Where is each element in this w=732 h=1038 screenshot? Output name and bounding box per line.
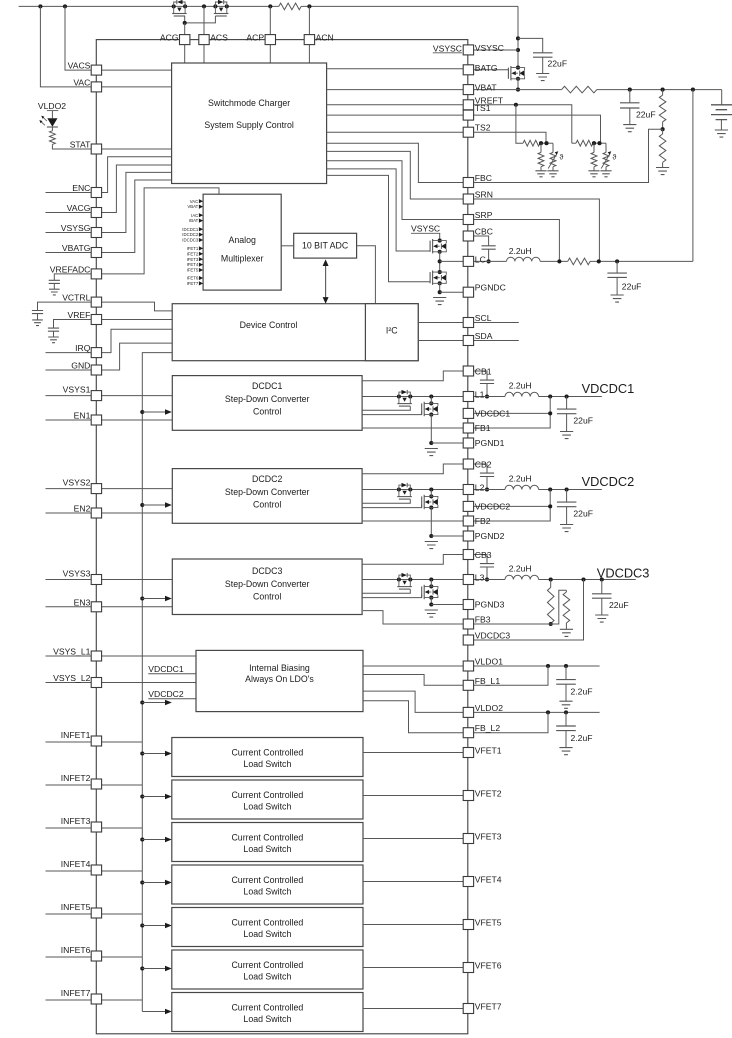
node cap tap xyxy=(600,577,604,581)
wire bus arrow xyxy=(142,839,165,841)
pin VFET6 xyxy=(463,963,473,973)
wire CB1 internal xyxy=(362,371,463,381)
wire PGND3 internal xyxy=(431,604,463,606)
node bus branch y968.5 xyxy=(140,966,144,970)
node PGND3 xyxy=(429,602,433,606)
wire INFET3 internal xyxy=(102,827,143,829)
svg-text:Step-Down Converter: Step-Down Converter xyxy=(225,487,310,497)
wire LC internal xyxy=(440,260,464,262)
resistor TS1 pulldown xyxy=(593,143,595,152)
svg-text:22uF: 22uF xyxy=(573,415,593,425)
wire VFET2 internal xyxy=(363,795,463,797)
svg-text:IFET6: IFET6 xyxy=(187,276,199,281)
node VBAT divider tap xyxy=(661,88,665,92)
svg-text:INFET5: INFET5 xyxy=(61,902,91,912)
wire EN1 internal xyxy=(102,419,173,421)
svg-text:VDCDC1: VDCDC1 xyxy=(148,664,184,674)
pin VREFADC xyxy=(91,269,101,279)
node bus branch y753.5 xyxy=(140,751,144,755)
wire bus arrow xyxy=(142,504,165,506)
wire charger to VREFT xyxy=(327,104,464,106)
ground PGNDC xyxy=(433,298,446,305)
pin FBC xyxy=(463,178,473,188)
transistor Q5 charger low FET xyxy=(438,270,442,274)
wire ACS pin to charger block xyxy=(203,45,205,63)
block load switch 1 xyxy=(172,738,363,777)
wire charger to TS1 xyxy=(327,114,464,116)
wire VAC internal xyxy=(102,86,172,88)
pin TS2 xyxy=(463,127,473,137)
ground PGND2 xyxy=(425,542,438,549)
svg-text:22uF: 22uF xyxy=(573,508,593,518)
wire charger to Q5 gate xyxy=(327,175,431,281)
pin CBC xyxy=(463,231,473,241)
wire PGND1 internal xyxy=(431,442,463,444)
pin VDCDC3 xyxy=(463,635,473,645)
wire L2 output xyxy=(539,489,602,491)
wire VSYS1 internal xyxy=(102,395,173,397)
pin VSYS2 xyxy=(91,484,101,494)
svg-text:DCDC3: DCDC3 xyxy=(252,566,282,576)
pin EN3 xyxy=(91,602,101,612)
pin VCTRL xyxy=(91,297,101,307)
inductor L-charger 2.2uH xyxy=(507,257,541,261)
wire bus arrow bottom xyxy=(142,1011,165,1013)
node FB_L2 tap xyxy=(546,710,550,714)
svg-text:Current Controlled: Current Controlled xyxy=(231,1003,303,1013)
pin VDCDC2 xyxy=(463,501,473,511)
wire PMOS gate drive xyxy=(362,589,410,593)
transistor PMOS DCDC1 xyxy=(397,394,401,398)
node battery junction xyxy=(691,88,695,92)
diode D1 LED xyxy=(51,111,53,119)
wire NMOS gate drive xyxy=(362,505,422,508)
wire ACP pin to charger block xyxy=(269,45,271,63)
svg-text:VDCDC2: VDCDC2 xyxy=(148,689,184,699)
svg-text:L1: L1 xyxy=(475,390,485,400)
pin VSYS1 xyxy=(91,391,101,401)
svg-text:SRN: SRN xyxy=(475,190,493,200)
node VREFT branch xyxy=(514,103,518,107)
pin ACS xyxy=(199,35,209,45)
wire ACN drop xyxy=(308,6,310,34)
node FB_L1 tap xyxy=(546,664,550,668)
block load switch 7 xyxy=(172,993,363,1032)
resistor FB divider lower xyxy=(565,590,567,592)
svg-text:VLDO2: VLDO2 xyxy=(475,703,503,713)
wire GND stub xyxy=(46,369,92,371)
svg-text:VSYS2: VSYS2 xyxy=(63,477,91,487)
svg-text:LC: LC xyxy=(475,254,486,264)
wire NMOS to PGND2 xyxy=(430,508,432,536)
node L2 switch node xyxy=(429,487,433,491)
svg-text:VDCDC2: VDCDC2 xyxy=(582,474,635,489)
wire TS2 external xyxy=(474,132,546,143)
svg-text:Switchmode Charger: Switchmode Charger xyxy=(208,98,290,108)
wire bus arrow xyxy=(142,598,165,600)
wire bus arrow xyxy=(142,968,165,970)
wire VSYS1 stub xyxy=(46,395,92,397)
svg-text:CB2: CB2 xyxy=(475,459,492,469)
pin VFET1 xyxy=(463,748,473,758)
svg-text:VDCDC2: VDCDC2 xyxy=(475,501,511,511)
pin EN1 xyxy=(91,415,101,425)
pin VAC xyxy=(91,82,101,92)
wire VAC drop xyxy=(40,6,91,87)
transistor Q4 charger high FET xyxy=(438,239,442,243)
wire INFET3 stub xyxy=(46,827,92,829)
wire INFET2 internal xyxy=(102,784,143,786)
transistor PMOS DCDC2 xyxy=(397,487,401,491)
block DCDC3 control xyxy=(172,559,362,615)
wire rail down to VSYSC node xyxy=(517,6,519,67)
svg-text:DCDC2: DCDC2 xyxy=(252,474,282,484)
wire L2 switch line xyxy=(362,489,463,491)
node rail-VAC junction xyxy=(38,4,42,8)
capacitor C-vrefadc xyxy=(54,274,91,280)
transistor NMOS DCDC2 xyxy=(429,494,433,498)
svg-text:VREF: VREF xyxy=(67,310,90,320)
block U6 Internal Biasing LDO xyxy=(196,650,363,711)
capacitor C-out 22uF xyxy=(566,490,568,503)
node bus branch y598.5 xyxy=(140,596,144,600)
pin PGND2 xyxy=(463,531,473,541)
wire VBATG internal xyxy=(102,180,172,253)
pin INFET6 xyxy=(91,951,101,961)
wire VREF internal xyxy=(102,319,173,321)
transistor PMOS DCDC3 xyxy=(397,577,401,581)
svg-text:Current Controlled: Current Controlled xyxy=(231,833,303,843)
wire charger to VBAT xyxy=(327,89,464,91)
pin VFET2 xyxy=(463,791,473,801)
wire L1 switch line xyxy=(362,396,463,398)
node PGND1 xyxy=(429,441,433,445)
svg-text:PGND3: PGND3 xyxy=(475,600,505,610)
pin VSYSG xyxy=(91,228,101,238)
ground PGND3 xyxy=(425,610,438,617)
wire Q1-Q2 gate net to ACG xyxy=(185,16,216,23)
svg-text:ACS: ACS xyxy=(210,33,228,43)
pin SRP xyxy=(463,215,473,225)
svg-text:Internal Biasing: Internal Biasing xyxy=(249,663,310,673)
svg-text:Load Switch: Load Switch xyxy=(243,759,291,769)
ground under C-vbat xyxy=(623,125,636,132)
ground C-vrefadc xyxy=(49,289,60,295)
ground under C-out xyxy=(560,525,573,532)
ground C-vctrl xyxy=(32,320,43,326)
pin VREF xyxy=(91,315,101,325)
ground TS2 pulldown xyxy=(535,171,546,177)
pin INFET3 xyxy=(91,822,101,832)
svg-text:VDCDC3: VDCDC3 xyxy=(597,566,650,581)
capacitor C-out 22uF xyxy=(601,580,603,594)
block U3 10 BIT ADC xyxy=(294,233,357,258)
svg-text:VFET5: VFET5 xyxy=(475,918,502,928)
capacitor C-vsysc 22uF xyxy=(533,53,553,57)
pin SCL xyxy=(463,318,473,328)
wire VACG stub xyxy=(46,212,92,214)
svg-text:Load Switch: Load Switch xyxy=(243,971,291,981)
node PGND2 xyxy=(429,534,433,538)
pin EN2 xyxy=(91,508,101,518)
wire bus arrow xyxy=(142,925,165,927)
ground under C-lc xyxy=(611,295,624,302)
capacitor C-vbat 22uF xyxy=(629,90,631,103)
ground TS1 pulldown xyxy=(588,171,599,177)
ground under battery xyxy=(715,130,728,137)
svg-text:IFET1: IFET1 xyxy=(187,246,199,251)
pin VBATG xyxy=(91,248,101,258)
pin L2 xyxy=(463,485,473,495)
wire INFET4 internal xyxy=(102,870,143,872)
pin PGNDC xyxy=(463,287,473,297)
svg-text:PGNDC: PGNDC xyxy=(475,283,506,293)
resistor TS2 pulldown xyxy=(540,143,542,152)
resistor VBAT series xyxy=(562,86,597,93)
svg-text:2.2uH: 2.2uH xyxy=(509,246,532,256)
svg-text:INFET3: INFET3 xyxy=(61,816,91,826)
wire L3 output xyxy=(539,579,636,581)
wire ENC stub xyxy=(46,192,92,194)
svg-text:VFET7: VFET7 xyxy=(475,1002,502,1012)
wire ACS drop xyxy=(203,6,205,34)
thermistor TS2 xyxy=(552,143,554,152)
svg-text:EN3: EN3 xyxy=(74,597,91,607)
wire SRN external xyxy=(474,199,600,261)
svg-text:PGND2: PGND2 xyxy=(475,531,505,541)
wire VFET5 internal xyxy=(363,924,463,926)
pin CB2 xyxy=(463,459,473,469)
node LC cap tap xyxy=(615,259,619,263)
wire INFET5 stub xyxy=(46,913,92,915)
wire LC output line xyxy=(474,260,693,262)
svg-text:Load Switch: Load Switch xyxy=(243,844,291,854)
pin PGND3 xyxy=(463,600,473,610)
block DCDC1 control xyxy=(172,376,362,431)
node rail-VACS junction xyxy=(63,4,67,8)
wire FB3 internal xyxy=(363,611,463,624)
node cap tap xyxy=(565,487,569,491)
resistor FB divider upper xyxy=(550,580,552,588)
pin CB3 xyxy=(463,550,473,560)
svg-text:VSYSC: VSYSC xyxy=(433,43,462,53)
svg-text:2.2uH: 2.2uH xyxy=(509,474,532,484)
svg-text:CB1: CB1 xyxy=(475,366,492,376)
node rail-ACP junction xyxy=(268,4,272,8)
svg-text:22uF: 22uF xyxy=(636,109,656,119)
node C-ldo2 tap xyxy=(564,710,568,714)
pin ACP xyxy=(265,35,275,45)
wire VDCDC1 feedback xyxy=(474,397,551,429)
block U4 Device Control xyxy=(172,304,418,361)
svg-text:Load Switch: Load Switch xyxy=(243,886,291,896)
pin FB1 xyxy=(463,423,473,433)
resistor divider upper xyxy=(662,90,664,96)
wire INFET6 internal xyxy=(102,956,143,958)
svg-text:SDA: SDA xyxy=(475,331,493,341)
pin INFET2 xyxy=(91,779,101,789)
pin VSYSC xyxy=(463,45,473,55)
thermistor TS1 xyxy=(605,143,607,152)
svg-text:Control: Control xyxy=(253,500,281,510)
pin ENC xyxy=(91,188,101,198)
wire VACS drop xyxy=(65,6,91,70)
ground thermistor TS1 xyxy=(600,171,611,177)
node bus branch y925.5 xyxy=(140,923,144,927)
wire NMOS to PGND1 xyxy=(430,415,432,443)
wire VSYSG internal xyxy=(102,172,172,232)
ground under C-vsysc xyxy=(536,74,549,81)
capacitor C-vref xyxy=(54,320,92,329)
svg-text:Control: Control xyxy=(253,592,281,602)
pin IRQ xyxy=(91,348,101,358)
wire SDA internal xyxy=(418,340,463,342)
block load switch 6 xyxy=(172,950,363,989)
node CB2-L2 xyxy=(485,487,489,491)
pin ACG xyxy=(180,35,190,45)
svg-text:FBC: FBC xyxy=(475,173,492,183)
svg-text:VDCDC1: VDCDC1 xyxy=(582,381,635,396)
svg-text:Device Control: Device Control xyxy=(240,320,298,330)
svg-text:ACG: ACG xyxy=(160,33,179,43)
svg-text:2.2uH: 2.2uH xyxy=(509,381,532,391)
node C-ldo1 tap xyxy=(564,664,568,668)
node VDCDC2 out xyxy=(548,487,552,491)
svg-text:VSYSG: VSYSG xyxy=(61,223,91,233)
svg-text:VREFADC: VREFADC xyxy=(50,265,91,275)
svg-text:2.2uF: 2.2uF xyxy=(571,687,593,697)
capacitor C-ldo1 2.2uF xyxy=(565,666,567,680)
wire EN2 stub xyxy=(46,512,92,514)
wire charger to SRN xyxy=(327,151,464,199)
svg-text:DCDC1: DCDC1 xyxy=(252,381,282,391)
svg-text:22uF: 22uF xyxy=(609,600,629,610)
wire EN2 internal xyxy=(102,512,173,514)
wire INFET4 stub xyxy=(46,870,92,872)
wire charger to FBC xyxy=(327,143,464,182)
pin CB1 xyxy=(463,366,473,376)
svg-text:VDCDC3: VDCDC3 xyxy=(475,631,511,641)
svg-text:VBATG: VBATG xyxy=(62,243,91,253)
pin INFET5 xyxy=(91,908,101,918)
pin VDCDC1 xyxy=(463,408,473,418)
ground under C-out xyxy=(595,615,608,622)
node cap tap xyxy=(565,394,569,398)
ground under C-out xyxy=(560,432,573,439)
wire EN1 stub xyxy=(46,419,92,421)
block load switch 4 xyxy=(172,865,363,904)
wire VLDO2 external xyxy=(474,711,600,713)
svg-text:VFET6: VFET6 xyxy=(475,961,502,971)
wire bus arrow xyxy=(142,702,165,704)
svg-text:BATG: BATG xyxy=(475,63,498,73)
pin GND xyxy=(91,365,101,375)
svg-text:I²C: I²C xyxy=(386,326,398,336)
svg-text:Current Controlled: Current Controlled xyxy=(231,875,303,885)
node bus branch y796.5 xyxy=(140,794,144,798)
wire INFET1 internal xyxy=(102,741,143,743)
wire VACS internal xyxy=(102,69,172,71)
svg-text:L2: L2 xyxy=(475,483,485,493)
transistor Q2 input PFET xyxy=(213,4,217,8)
resistor R-stat xyxy=(51,127,53,131)
svg-text:Load Switch: Load Switch xyxy=(243,801,291,811)
pin VFET3 xyxy=(463,834,473,844)
block load switch 2 xyxy=(172,780,363,819)
wire PMOS gate drive xyxy=(362,406,410,410)
svg-text:IFET5: IFET5 xyxy=(187,268,199,273)
svg-text:VDCDC1: VDCDC1 xyxy=(475,408,511,418)
svg-text:Multiplexer: Multiplexer xyxy=(221,254,264,264)
svg-text:ϑ: ϑ xyxy=(613,155,617,162)
svg-text:IRQ: IRQ xyxy=(75,343,91,353)
wire SCL external xyxy=(474,322,519,324)
battery BT1 xyxy=(721,90,723,105)
pin BATG xyxy=(463,65,473,75)
svg-text:VSYSC: VSYSC xyxy=(411,224,440,234)
svg-text:INFET4: INFET4 xyxy=(61,859,91,869)
wire LC to VBAT xyxy=(692,90,694,262)
wire ACP drop xyxy=(269,6,271,34)
node L1 switch node xyxy=(429,394,433,398)
svg-text:Step-Down Converter: Step-Down Converter xyxy=(225,394,310,404)
wire GND internal xyxy=(102,343,173,370)
svg-text:IFET3: IFET3 xyxy=(187,257,199,262)
svg-text:VFET4: VFET4 xyxy=(475,875,502,885)
svg-text:GND: GND xyxy=(71,361,90,371)
capacitor C-out 22uF xyxy=(566,397,568,410)
svg-text:CB3: CB3 xyxy=(475,550,492,560)
wire VSYSC to Q4 xyxy=(439,233,441,240)
ground PGND1 xyxy=(425,449,438,456)
svg-text:VACG: VACG xyxy=(67,203,91,213)
capacitor C-vctrl xyxy=(38,302,92,310)
wire CBC external xyxy=(474,236,489,246)
pin VFET4 xyxy=(463,877,473,887)
wire VSYS3 internal xyxy=(102,579,173,581)
wire VLDO2 internal xyxy=(363,691,463,712)
wire NMOS to PGND3 xyxy=(430,598,432,605)
svg-text:VLDO2: VLDO2 xyxy=(38,101,66,111)
svg-text:System Supply Control: System Supply Control xyxy=(204,120,294,130)
ground under divider xyxy=(656,168,669,175)
svg-text:Current Controlled: Current Controlled xyxy=(231,748,303,758)
svg-text:IDCDC1: IDCDC1 xyxy=(182,227,199,232)
svg-text:VSYS1: VSYS1 xyxy=(63,384,91,394)
svg-text:VLDO1: VLDO1 xyxy=(475,657,503,667)
ground thermistor TS2 xyxy=(547,171,558,177)
svg-text:Always On LDO's: Always On LDO's xyxy=(245,674,314,684)
svg-text:VSYS_L1: VSYS_L1 xyxy=(53,647,90,657)
node CB3-L3 xyxy=(485,577,489,581)
capacitor C-cb3 xyxy=(474,555,487,564)
pin VACG xyxy=(91,208,101,218)
resistor TS2 series xyxy=(523,140,540,146)
svg-text:IAC: IAC xyxy=(191,213,198,218)
node VSYSC cap tap xyxy=(516,36,520,40)
svg-text:Current Controlled: Current Controlled xyxy=(231,790,303,800)
transistor Q1 input PFET xyxy=(172,4,176,8)
ground under C-ldo2 xyxy=(559,748,572,755)
wire VDCDC3 feedback xyxy=(474,580,584,641)
pin L3 xyxy=(463,575,473,585)
node divider top xyxy=(549,577,553,581)
node SRN tap xyxy=(597,259,601,263)
block U1 Switchmode Charger xyxy=(172,63,327,184)
pin VLDO2 xyxy=(463,707,473,717)
wire EN3 internal xyxy=(102,606,173,608)
wire L3 switch line xyxy=(362,579,463,581)
